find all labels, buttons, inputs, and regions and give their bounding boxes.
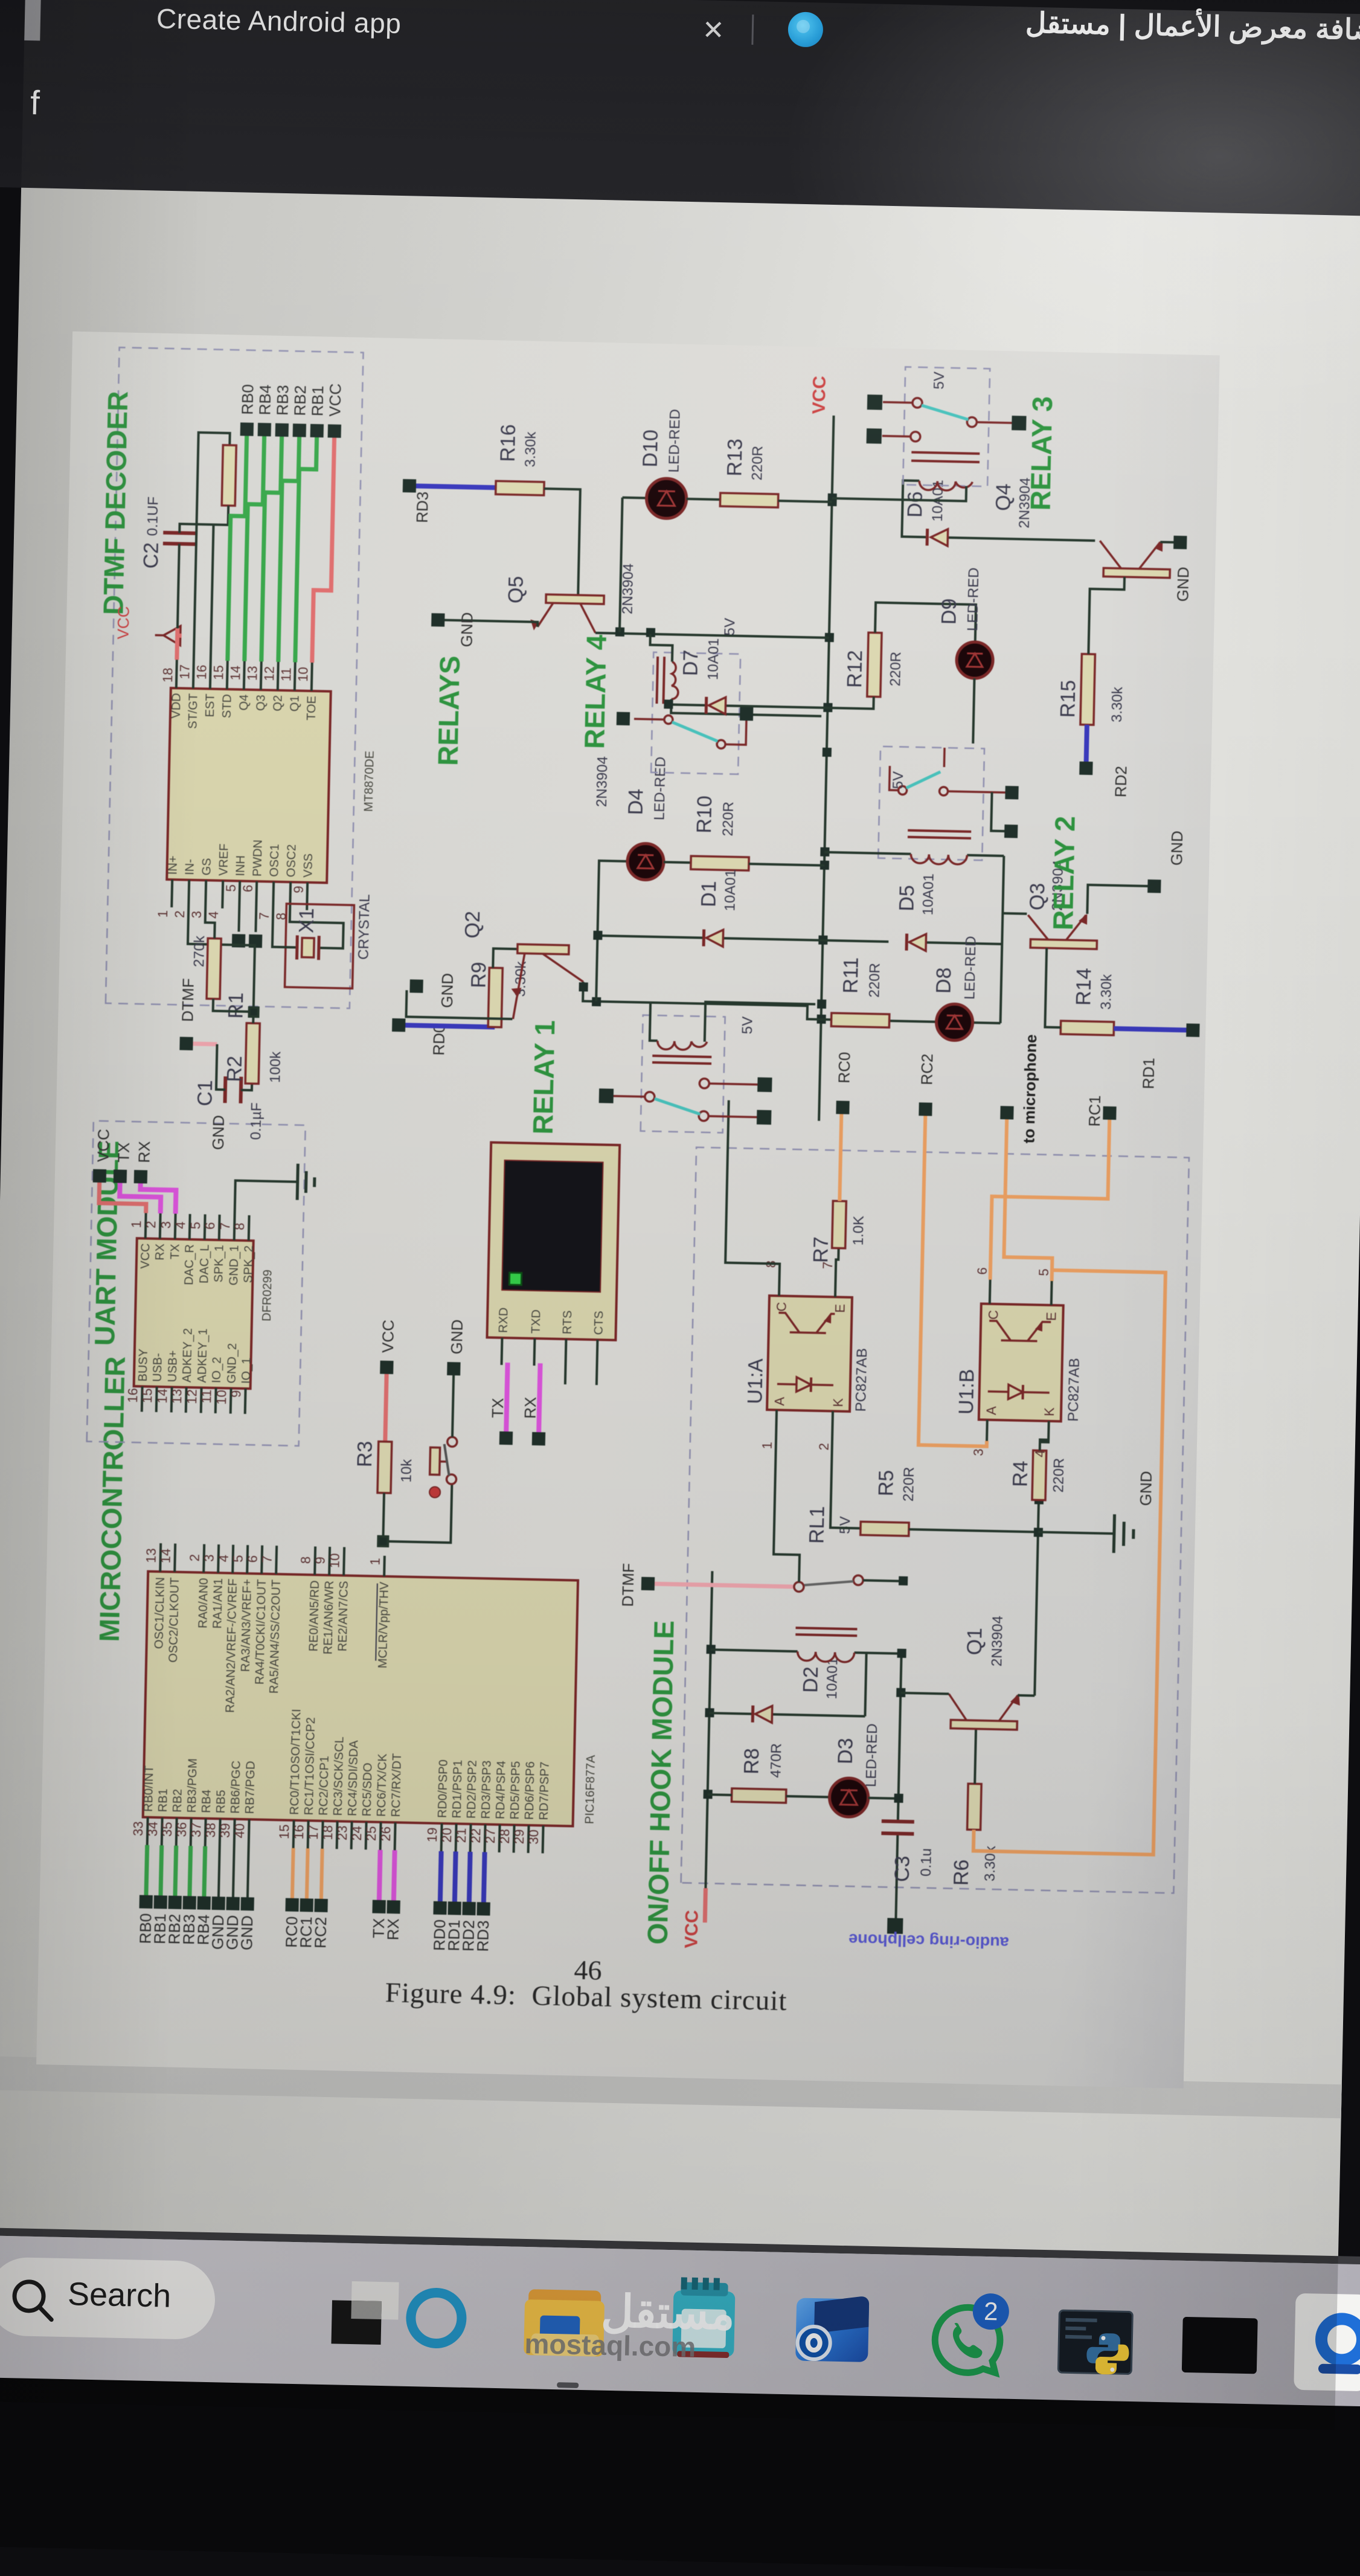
svg-text:RD6/PSP6: RD6/PSP6: [523, 1761, 537, 1820]
transistor Q3 2N3904: [1025, 859, 1099, 949]
svg-text:RC3/SCK/SCL: RC3/SCK/SCL: [332, 1736, 347, 1816]
wire relay2 coil top to VCC rail: [824, 852, 878, 853]
svg-text:7: 7: [257, 912, 272, 920]
svg-text:470R: 470R: [768, 1743, 784, 1778]
svg-text:1: 1: [368, 1558, 383, 1566]
svg-text:USB-: USB-: [151, 1353, 165, 1382]
svg-text:9: 9: [228, 1390, 243, 1398]
relay RL1 coil: [710, 1504, 904, 1663]
terminal GND (Q3): [1147, 830, 1186, 893]
svg-text:TX: TX: [168, 1244, 182, 1259]
svg-text:GND: GND: [438, 973, 457, 1008]
title MICROCONTROLLER: [94, 1356, 131, 1642]
phone pin stubs: [501, 1338, 598, 1385]
terminal RD1: [1139, 1023, 1199, 1090]
wire R1 left to input node: [213, 999, 258, 1017]
wire VCC rail (module top): [705, 1888, 705, 1922]
label RELAY 2: [1047, 815, 1081, 930]
diode D1 10A01: [696, 869, 739, 947]
svg-text:3: 3: [202, 1554, 217, 1562]
svg-text:5: 5: [188, 1222, 203, 1230]
svg-text:RB1: RB1: [308, 385, 327, 416]
svg-text:10A01: 10A01: [824, 1657, 841, 1700]
wire orange R6 to U1:B pin5 (via module bottom): [973, 1269, 1166, 1855]
svg-text:37: 37: [188, 1822, 204, 1837]
svg-text:220R: 220R: [900, 1466, 917, 1502]
wire VDD node through C2 to steering network: [177, 432, 230, 661]
svg-text:RB0: RB0: [238, 384, 257, 415]
resistor R3 10k: [353, 1441, 415, 1494]
wire TOE to VCC: [312, 437, 335, 663]
svg-text:220R: 220R: [720, 801, 737, 837]
wire Q5 emitter to GND terminal: [444, 620, 537, 627]
svg-text:RA1/AN1: RA1/AN1: [211, 1578, 225, 1629]
svg-text:TXD: TXD: [530, 1309, 544, 1334]
svg-text:IO_2: IO_2: [210, 1357, 224, 1383]
svg-text:18: 18: [160, 667, 176, 683]
svg-text:10A01: 10A01: [920, 873, 937, 916]
capacitor C2 0.1UF: [140, 496, 196, 570]
svg-text:RC0: RC0: [835, 1052, 853, 1084]
svg-text:16: 16: [125, 1388, 141, 1403]
terminal RD0: [391, 1018, 448, 1056]
transistor Q5 2N3904: [504, 561, 637, 634]
taskview icon: [351, 2281, 399, 2320]
svg-text:RD5/PSP5: RD5/PSP5: [508, 1761, 523, 1820]
relay3 coil feed from VCC rail: [832, 483, 966, 501]
svg-text:14: 14: [155, 1389, 170, 1404]
resistor R1 270k: [190, 935, 249, 1019]
UART VCC terminal + wire: [93, 1129, 113, 1183]
svg-text:RD2: RD2: [1111, 766, 1130, 798]
title RELAYS: [432, 655, 466, 766]
wire D3 to bottom rail: [868, 1798, 899, 1799]
svg-text:5V: 5V: [739, 1017, 756, 1035]
resistor R9 3.30k: [466, 960, 529, 1028]
UART GND wire + ground symbol: [209, 1115, 228, 1150]
phone (cellphone) component: [487, 1142, 620, 1340]
svg-text:RC4/SDI/SDA: RC4/SDI/SDA: [346, 1739, 361, 1816]
svg-text:RD3: RD3: [413, 491, 432, 523]
svg-text:VCC: VCC: [809, 376, 830, 414]
svg-text:D4: D4: [624, 788, 648, 815]
resistor R2 100k: [223, 1023, 284, 1084]
UART module dashed frame: [87, 1121, 306, 1446]
svg-text:D8: D8: [932, 967, 956, 994]
svg-text:16: 16: [194, 664, 210, 679]
file explorer folder icon: [528, 2289, 601, 2316]
terminal RX (phone) + wire: [521, 1396, 547, 1445]
resistor R12 220R: [843, 632, 905, 697]
IC U_DTMF MT8870DE body: [167, 688, 378, 884]
wire Q2 emitter to GND terminal: [406, 990, 513, 1019]
svg-text:RTS: RTS: [561, 1310, 575, 1334]
svg-text:RD1: RD1: [1139, 1058, 1158, 1090]
svg-text:18: 18: [320, 1825, 336, 1840]
svg-text:2: 2: [187, 1554, 202, 1562]
svg-text:Q2: Q2: [271, 695, 285, 711]
wire D4 row: [596, 861, 627, 1002]
terminal RD3: [402, 479, 432, 523]
label VCC (relays rail): [809, 376, 830, 414]
MT8870 right names: [169, 693, 318, 731]
svg-text:D7: D7: [679, 649, 702, 676]
wire hook NO contact to U1:A pin1: [773, 1430, 802, 1582]
wire orange R7 to RC0: [839, 1114, 842, 1201]
svg-text:RA2/AN2/VREF-/CVREF: RA2/AN2/VREF-/CVREF: [223, 1578, 240, 1713]
svg-text:22: 22: [468, 1828, 484, 1843]
wire STD to RB0: [228, 435, 247, 661]
svg-text:30: 30: [526, 1829, 542, 1845]
svg-text:VDD: VDD: [170, 693, 184, 719]
IC U_UART DFR0299 body: [134, 1238, 275, 1389]
IC U_PIC PIC16F877A body: [143, 1572, 601, 1827]
svg-text:LED-RED: LED-RED: [863, 1723, 880, 1787]
wire EST pin16 to steering resistor: [211, 506, 228, 661]
svg-text:K: K: [830, 1398, 845, 1407]
svg-text:RD2/PSP2: RD2/PSP2: [465, 1760, 480, 1819]
svg-text:RX: RX: [135, 1141, 153, 1163]
svg-text:6: 6: [240, 885, 255, 893]
svg-text:RC1/T1OSI/CCP2: RC1/T1OSI/CCP2: [303, 1717, 318, 1816]
svg-text:RB3: RB3: [273, 385, 292, 416]
svg-text:1: 1: [155, 910, 170, 918]
relay RELAY2 block: [878, 747, 1006, 866]
label RELAY 1: [527, 1020, 561, 1134]
svg-text:OSC2: OSC2: [284, 844, 298, 878]
PIC right pin names: [151, 1576, 391, 1716]
svg-text:5V: 5V: [890, 771, 907, 789]
MT8870 right stubs + numbers: [176, 660, 312, 691]
svg-text:PIC16F877A: PIC16F877A: [583, 1755, 598, 1825]
svg-text:7: 7: [260, 1555, 275, 1563]
svg-text:2N3904: 2N3904: [989, 1616, 1006, 1667]
svg-text:33: 33: [130, 1821, 146, 1836]
svg-text:RD7/PSP7: RD7/PSP7: [537, 1762, 552, 1820]
wire diode bus (D1/D5): [596, 905, 1003, 1023]
svg-text:RC6/TX/CK: RC6/TX/CK: [375, 1753, 390, 1817]
svg-text:R11: R11: [839, 957, 863, 994]
wire U1:A pin2 to R5: [830, 1431, 862, 1528]
power label VCC (module): [681, 1910, 702, 1948]
MT8870 left stubs + numbers: [172, 879, 307, 910]
svg-text:Q5: Q5: [504, 576, 528, 603]
wire bundle RD0-RD3 (blue): [440, 1851, 485, 1902]
crystal X1: [272, 892, 373, 989]
svg-text:GND: GND: [1167, 830, 1186, 866]
wire Q4 to RB4: [245, 436, 265, 661]
svg-text:0.1u: 0.1u: [918, 1848, 935, 1877]
wire bottom rail (C3/Q1 node): [896, 1654, 901, 1919]
svg-text:16: 16: [291, 1825, 307, 1840]
svg-text:C: C: [774, 1302, 789, 1312]
opto U1:B PC827AB: [954, 1267, 1085, 1458]
wire button to GND terminal: [452, 1375, 454, 1437]
wire R15 to Q4 base: [1088, 576, 1124, 655]
svg-text:0.1µF: 0.1µF: [248, 1102, 265, 1140]
svg-text:3: 3: [158, 1221, 173, 1229]
terminal GND (Q2): [409, 972, 457, 1008]
terminal VCC (reset): [378, 1320, 397, 1375]
svg-text:RB1: RB1: [156, 1788, 170, 1812]
terminal RC2: [917, 1053, 936, 1116]
wire DTMF input through C1: [193, 1042, 217, 1047]
wire bundle TX RX (magenta): [379, 1850, 395, 1900]
wire Q1 to RB1: [295, 437, 317, 663]
svg-text:R10: R10: [693, 795, 716, 834]
wire R12 left to rail: [827, 696, 873, 709]
svg-text:LED-RED: LED-RED: [666, 409, 683, 473]
terminals for PIC left nets: [140, 1895, 490, 1916]
svg-text:PC827AB: PC827AB: [853, 1348, 870, 1412]
wire Q3 emitter to GND: [1087, 885, 1147, 915]
wire R13 to VCC rail: [778, 501, 832, 502]
svg-text:VREF: VREF: [217, 843, 231, 876]
wire Q3 to RB3: [261, 436, 282, 661]
junction dots bottom rail: [894, 1576, 908, 1803]
svg-text:13: 13: [245, 666, 260, 681]
svg-text:R9: R9: [467, 962, 491, 988]
DFR0299 right names: [138, 1243, 255, 1286]
svg-text:RC5/SDO: RC5/SDO: [361, 1762, 375, 1816]
resistor R5 220R: [861, 1466, 917, 1536]
svg-text:RB2: RB2: [171, 1789, 185, 1813]
svg-text:RD3/PSP3: RD3/PSP3: [480, 1761, 494, 1819]
svg-text:10A01: 10A01: [705, 638, 722, 680]
junction dot D4 row: [592, 997, 601, 1006]
svg-text:15: 15: [277, 1824, 292, 1839]
svg-text:IO_1: IO_1: [240, 1357, 254, 1384]
wire D10 row: [620, 498, 647, 633]
svg-text:3: 3: [971, 1448, 986, 1456]
svg-text:D6: D6: [903, 491, 927, 518]
DFR0299 left names: [136, 1327, 254, 1384]
svg-text:D10: D10: [639, 429, 662, 467]
ground symbol (module): [1038, 1469, 1155, 1554]
svg-text:RA4/T0CKI/C1OUT: RA4/T0CKI/C1OUT: [253, 1579, 269, 1685]
outlook icon: [795, 2298, 869, 2362]
U1:B pin stubs: [987, 1280, 1052, 1442]
wire pink DTMF down to hook switch: [655, 1584, 793, 1587]
svg-text:19: 19: [425, 1827, 440, 1842]
svg-text:RL1: RL1: [805, 1506, 829, 1544]
junction dots GND rail: [1034, 1495, 1044, 1537]
whatsapp icon: [922, 2296, 1014, 2388]
svg-text:RE2/AN7/CS: RE2/AN7/CS: [336, 1581, 351, 1651]
resistor R7 1.0K: [809, 1201, 867, 1264]
wire R1 right to GS pin3: [205, 908, 215, 938]
label audio-ring cellphone: [848, 1930, 1009, 1952]
UART TX terminal + wire: [114, 1142, 133, 1183]
svg-text:IN-: IN-: [183, 859, 197, 875]
svg-text:RELAY 3: RELAY 3: [1024, 396, 1058, 511]
wire D2 bottom to coil bottom node: [865, 1653, 866, 1717]
svg-text:11: 11: [199, 1389, 214, 1403]
PIC left pin stubs: [147, 1817, 544, 1854]
svg-text:3.30k: 3.30k: [522, 431, 539, 467]
LED D8: [931, 935, 980, 1041]
svg-text:RC2/CCP1: RC2/CCP1: [317, 1756, 332, 1816]
terminal RD2: [1079, 762, 1130, 798]
LED D9: [936, 567, 995, 678]
svg-text:3.30k: 3.30k: [1109, 686, 1126, 722]
svg-text:DTMF DECODER: DTMF DECODER: [97, 391, 133, 615]
wire orange U1:B pin3 to RC2: [919, 1116, 993, 1446]
svg-text:17: 17: [306, 1825, 321, 1840]
svg-text:4: 4: [1032, 1450, 1047, 1457]
svg-text:EST: EST: [204, 693, 217, 717]
terminals RELAY4: [617, 705, 754, 728]
svg-text:DTMF: DTMF: [618, 1563, 638, 1607]
svg-text:R2: R2: [223, 1056, 246, 1082]
wire blue RD2 to R15: [1086, 725, 1087, 762]
svg-text:VSS: VSS: [301, 853, 315, 878]
wire VCC to VDD pin 18: [177, 628, 182, 660]
terminal DTMF (decoder input): [178, 978, 197, 1050]
svg-text:DAC_R: DAC_R: [182, 1244, 196, 1285]
svg-text:8: 8: [298, 1556, 313, 1564]
capacitor C1 0.1uF: [193, 1076, 265, 1140]
wire Q5 collector trunk: [595, 633, 829, 638]
svg-text:VCC: VCC: [139, 1243, 153, 1269]
svg-text:R12: R12: [843, 650, 867, 688]
svg-text:28: 28: [497, 1829, 513, 1844]
resistor R_st (steering): [222, 445, 236, 506]
svg-text:VCC: VCC: [681, 1910, 702, 1948]
resistor R6 3.30k: [950, 1784, 1001, 1887]
svg-text:10: 10: [214, 1390, 229, 1405]
svg-text:14: 14: [228, 666, 243, 681]
svg-text:Q1: Q1: [963, 1628, 987, 1656]
svg-text:34: 34: [145, 1822, 161, 1837]
svg-text:D2: D2: [799, 1666, 823, 1693]
svg-text:14: 14: [158, 1549, 173, 1564]
DFR0299 right stubs + numbers: [146, 1213, 249, 1241]
wire blue RD0 to R9: [405, 1025, 495, 1027]
svg-text:C2: C2: [140, 542, 163, 569]
terminal DTMF (hook input): [618, 1563, 655, 1607]
svg-text:10k: 10k: [398, 1459, 415, 1483]
svg-text:40: 40: [232, 1823, 248, 1839]
svg-text:C1: C1: [193, 1080, 217, 1107]
svg-text:D1: D1: [697, 881, 720, 907]
svg-text:OSC1: OSC1: [268, 844, 281, 877]
wire R6 to Q1 base: [975, 1729, 976, 1784]
terminal to-microphone + wire from U1:B pin5: [1004, 1119, 1056, 1281]
wire C1 to R2: [216, 1044, 253, 1090]
wire R9 to Q2 base: [493, 948, 518, 968]
diode D7 10A01: [664, 637, 829, 716]
svg-text:4: 4: [206, 911, 221, 919]
svg-text:5: 5: [1036, 1268, 1051, 1276]
svg-text:IN+: IN+: [166, 855, 180, 875]
svg-text:DAC_L: DAC_L: [197, 1244, 211, 1283]
resistor R13 220R: [720, 438, 779, 507]
svg-text:RELAYS: RELAYS: [432, 655, 466, 766]
svg-text:RA5/AN4/SS/C2OUT: RA5/AN4/SS/C2OUT: [268, 1579, 283, 1694]
svg-text:24: 24: [349, 1826, 365, 1841]
svg-text:36: 36: [174, 1822, 190, 1837]
wire blue RD1 to R14: [1114, 1029, 1186, 1030]
svg-text:5: 5: [223, 884, 239, 892]
svg-text:SPK_2: SPK_2: [242, 1245, 255, 1283]
svg-text:RB2: RB2: [290, 385, 309, 416]
push button: [429, 1436, 457, 1498]
svg-text:270k: 270k: [191, 935, 208, 968]
svg-text:VCC: VCC: [379, 1320, 397, 1354]
wire GND rail (module): [1034, 1440, 1048, 1696]
svg-text:RD3: RD3: [473, 1920, 492, 1952]
svg-text:R15: R15: [1056, 680, 1080, 718]
svg-text:2N3904: 2N3904: [594, 756, 611, 808]
wire R2 to IN- pin2: [186, 908, 255, 1023]
title ON/OFF HOOK MODULE: [641, 1620, 679, 1945]
svg-text:29: 29: [512, 1829, 527, 1844]
terminal GND (Q4): [1172, 536, 1193, 602]
svg-text:38: 38: [203, 1823, 219, 1838]
svg-text:1: 1: [760, 1442, 775, 1450]
svg-text:5V: 5V: [837, 1516, 854, 1534]
wire R16 to Q5 base: [542, 489, 580, 601]
svg-text:17: 17: [177, 664, 193, 679]
svg-text:2: 2: [816, 1443, 832, 1451]
svg-text:220R: 220R: [749, 446, 766, 481]
svg-text:5: 5: [231, 1555, 246, 1563]
svg-text:1.0K: 1.0K: [850, 1216, 867, 1246]
svg-text:X1: X1: [295, 908, 318, 933]
svg-text:4: 4: [216, 1555, 231, 1563]
terminal audio-ring: [887, 1918, 903, 1934]
svg-text:7: 7: [217, 1222, 233, 1230]
svg-text:RB4: RB4: [255, 384, 274, 415]
wire R14 to Q3 base: [1045, 948, 1062, 1028]
resistor R8 470R: [731, 1742, 787, 1803]
wire bundle RC0-RC2 (orange): [292, 1848, 322, 1899]
svg-text:ADKEY_2: ADKEY_2: [181, 1328, 195, 1383]
wire U1:A pin8 collector up-right: [725, 1100, 783, 1276]
svg-text:RB7/PGD: RB7/PGD: [243, 1761, 258, 1814]
terminal TX (phone) + wire: [488, 1398, 514, 1445]
terminal RC1: [1085, 1095, 1117, 1127]
capacitor C3 0.1u: [880, 1821, 935, 1883]
terminal RC0: [834, 1052, 853, 1114]
svg-text:RD0/PSP0: RD0/PSP0: [436, 1759, 451, 1818]
terminals RELAY3: [867, 394, 1027, 447]
svg-text:12: 12: [184, 1389, 200, 1404]
wire VCC to R3: [385, 1374, 387, 1442]
svg-text:4: 4: [173, 1221, 188, 1229]
svg-text:100k: 100k: [267, 1051, 284, 1084]
svg-text:Q4: Q4: [237, 694, 251, 710]
resistor R10 220R: [691, 795, 751, 870]
svg-text:STD: STD: [220, 694, 234, 718]
svg-text:3: 3: [189, 911, 204, 919]
svg-text:RB6/PGC: RB6/PGC: [229, 1761, 243, 1814]
net labels RB0..RB4 GND RC0..RC2 TX RX RD0..RD3: [136, 1913, 492, 1955]
svg-text:TX: TX: [114, 1142, 133, 1163]
svg-text:R7: R7: [809, 1236, 833, 1263]
svg-text:9: 9: [313, 1556, 328, 1564]
wire R12 right to D9: [875, 603, 976, 642]
svg-text:5V: 5V: [931, 371, 948, 390]
svg-text:RELAY 2: RELAY 2: [1047, 815, 1081, 930]
wire rail to R8 and R8 to D3: [708, 1794, 830, 1797]
wire bundle RB0-RB4 (green): [146, 1845, 205, 1897]
diode D6 10A01: [902, 479, 1096, 549]
label RELAY 3: [1024, 396, 1058, 511]
svg-text:GND: GND: [447, 1319, 466, 1354]
svg-text:K: K: [1042, 1407, 1057, 1417]
